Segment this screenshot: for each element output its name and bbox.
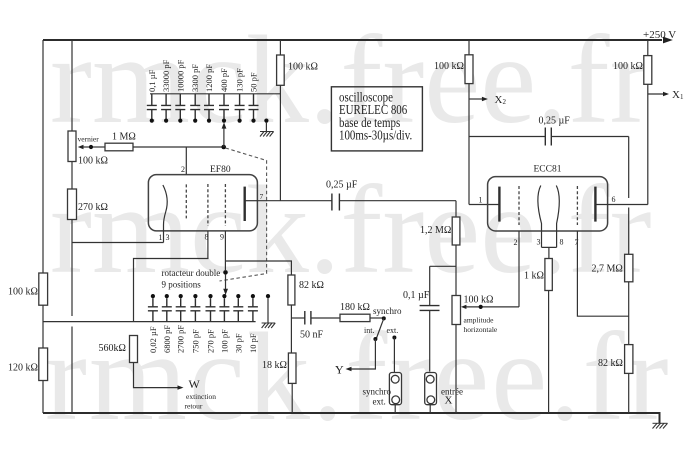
- tube ECC81: [479, 165, 616, 259]
- svg-text:9: 9: [220, 233, 224, 242]
- svg-text:100 kΩ: 100 kΩ: [8, 287, 38, 298]
- svg-text:2700 pF: 2700 pF: [176, 325, 186, 353]
- svg-text:400 pF: 400 pF: [219, 68, 229, 92]
- svg-text:rotacteur double: rotacteur double: [162, 268, 221, 278]
- node selector (bottom rotary wiper): [223, 270, 228, 275]
- capacitor 750pF: [190, 294, 200, 353]
- capacitor 30pF: [233, 294, 243, 353]
- svg-text:1 MΩ: 1 MΩ: [112, 132, 136, 143]
- wire EF80 anode line with coupling cap: [257, 200, 456, 202]
- svg-text:6800 pF: 6800 pF: [162, 325, 172, 353]
- svg-text:rmck.free.fr: rmck.free.fr: [45, 308, 671, 447]
- resistor 1k: [545, 259, 552, 291]
- grid g2 (EF80 pin8): [207, 184, 209, 226]
- capacitor 0,1uF branch: [430, 266, 456, 305]
- tube EF80: [148, 165, 263, 243]
- resistor 100k (X2): [465, 55, 473, 84]
- wire 100k bottom to EF80 anode line: [279, 85, 281, 200]
- svg-text:3: 3: [166, 233, 170, 242]
- svg-text:1,2 MΩ: 1,2 MΩ: [420, 225, 451, 236]
- svg-text:100 kΩ: 100 kΩ: [613, 61, 643, 72]
- svg-text:1 kΩ: 1 kΩ: [524, 271, 544, 282]
- svg-text:100 kΩ: 100 kΩ: [78, 156, 108, 167]
- resistor 2,7M: [625, 254, 633, 281]
- ground (chassis, bottom right): [653, 423, 668, 428]
- svg-text:EF80: EF80: [210, 165, 231, 175]
- svg-text:100 kΩ: 100 kΩ: [288, 62, 318, 73]
- svg-text:ext.: ext.: [373, 397, 386, 407]
- svg-text:1: 1: [479, 196, 483, 205]
- svg-text:100 kΩ: 100 kΩ: [434, 61, 464, 72]
- capacitor 33000pF: [161, 59, 171, 122]
- ground bus: [43, 413, 660, 423]
- svg-text:50 nF: 50 nF: [300, 330, 324, 341]
- svg-text:1: 1: [680, 93, 684, 101]
- svg-text:W: W: [189, 377, 201, 391]
- capacitor 50pF: [249, 72, 259, 123]
- grid right (ECC81 pin7): [576, 186, 578, 225]
- potentiometer 100k vernier: [68, 131, 76, 162]
- svg-text:0,25 µF: 0,25 µF: [539, 116, 571, 127]
- jack entree X: [425, 373, 463, 407]
- capacitor 400pF: [219, 68, 229, 123]
- svg-text:vernier: vernier: [78, 135, 100, 144]
- svg-text:2,7 MΩ: 2,7 MΩ: [592, 264, 623, 275]
- svg-text:560kΩ: 560kΩ: [99, 343, 126, 354]
- resistor 180k: [340, 314, 370, 321]
- potentiometer 100k amplitude horizontale: [452, 296, 461, 325]
- svg-text:180 kΩ: 180 kΩ: [340, 302, 370, 313]
- svg-text:0,25 µF: 0,25 µF: [326, 180, 358, 191]
- svg-text:X: X: [672, 89, 680, 101]
- capacitor 10000pF: [175, 59, 185, 122]
- svg-text:0,1 µF: 0,1 µF: [403, 290, 430, 301]
- anode plate left (ECC81): [498, 187, 500, 222]
- node 9th position (bottom bank): [266, 294, 270, 298]
- svg-text:1: 1: [159, 233, 163, 242]
- resistor 1,2M: [455, 201, 457, 217]
- svg-text:3300 pF: 3300 pF: [190, 64, 200, 92]
- svg-text:ext.: ext.: [387, 326, 399, 335]
- svg-text:100 pF: 100 pF: [219, 329, 229, 353]
- wire X2 column: [469, 40, 499, 205]
- capacitor 6800pF: [162, 294, 172, 353]
- svg-text:3: 3: [537, 238, 541, 247]
- capacitor 0,25uF (left): [332, 194, 340, 211]
- svg-text:X: X: [445, 395, 453, 407]
- capacitor 0,25uF (right): [545, 128, 551, 146]
- wire pin6 line: [597, 204, 648, 206]
- wire pin2 stub: [185, 147, 187, 175]
- svg-text:130 pF: 130 pF: [235, 68, 245, 92]
- svg-text:synchro: synchro: [373, 306, 402, 316]
- resistor 100k (top left): [277, 55, 285, 85]
- grid g3 (EF80 pin9): [224, 184, 226, 226]
- grid left (ECC81 pin2): [518, 186, 520, 225]
- resistor 270k: [68, 189, 77, 220]
- capacitor 2700pF: [176, 294, 186, 353]
- svg-text:270 pF: 270 pF: [206, 329, 216, 353]
- capacitor 50nF: [291, 317, 304, 319]
- svg-text:Y: Y: [335, 363, 344, 377]
- resistor 120k: [39, 348, 48, 381]
- resistor 100k (left rail): [39, 273, 48, 305]
- arrow X2: [469, 98, 483, 100]
- cathode (EF80): [163, 185, 167, 243]
- svg-text:82 kΩ: 82 kΩ: [299, 280, 324, 291]
- wire int to Y: [349, 339, 375, 369]
- svg-text:100ms-30µs/div.: 100ms-30µs/div.: [339, 127, 412, 143]
- wire pin2 to pot wiper: [518, 231, 520, 307]
- ground (top bank): [260, 132, 274, 137]
- svg-text:750 pF: 750 pF: [190, 329, 200, 353]
- cathode (ECC81): [538, 186, 542, 248]
- info box oscilloscope EURELEC 806: [331, 87, 422, 151]
- anode plate right (ECC81): [594, 187, 596, 222]
- svg-text:1200 pF: 1200 pF: [204, 64, 214, 92]
- jack synchro ext: [363, 373, 402, 407]
- svg-text:horizontale: horizontale: [464, 325, 498, 334]
- svg-text:18 kΩ: 18 kΩ: [262, 360, 287, 371]
- capacitor 130pF: [235, 68, 245, 123]
- capacitor 0,02uF (bank bottom 1): [148, 294, 158, 353]
- svg-text:10 pF: 10 pF: [248, 333, 258, 353]
- grid g1 (EF80 pin2): [185, 184, 187, 218]
- capacitor bank bottom: bus: [43, 321, 256, 323]
- svg-text:30 pF: 30 pF: [233, 333, 243, 353]
- +250V supply rail: [43, 29, 676, 43]
- svg-text:0,02 µF: 0,02 µF: [148, 326, 158, 353]
- svg-text:2: 2: [514, 238, 518, 247]
- resistor 1M: [105, 143, 133, 151]
- wire X1 column: [647, 40, 649, 205]
- resistor 82k (middle): [288, 275, 295, 305]
- ground (bottom bank): [262, 323, 276, 328]
- arrow X1: [648, 93, 664, 95]
- wire 82k to 18k: [290, 305, 292, 353]
- svg-text:10000 pF: 10000 pF: [175, 59, 185, 92]
- capacitor 3300pF: [190, 64, 200, 123]
- wire 560k to W arrow (extinction retour): [134, 363, 179, 388]
- resistor 100k (X1): [644, 56, 652, 85]
- svg-text:33000 pF: 33000 pF: [161, 59, 171, 92]
- svg-text:7: 7: [260, 192, 264, 201]
- resistor 560k: [130, 336, 138, 363]
- wire 0,25uF coupling (right): [469, 137, 629, 255]
- pin 7 lead: [246, 200, 258, 202]
- svg-text:120 kΩ: 120 kΩ: [8, 363, 38, 374]
- svg-text:100 kΩ: 100 kΩ: [464, 295, 494, 306]
- svg-text:2: 2: [503, 98, 507, 106]
- svg-text:ECC81: ECC81: [534, 165, 562, 175]
- capacitor bank top: bus: [150, 93, 280, 95]
- wire ext down to jack: [393, 338, 395, 373]
- wire pin7 to divider: [577, 231, 628, 316]
- mechanical link (dashed): [220, 148, 267, 281]
- svg-text:X: X: [495, 94, 503, 106]
- svg-text:50 pF: 50 pF: [249, 72, 259, 92]
- svg-text:retour: retour: [185, 402, 203, 411]
- wire pin9 down to selector: [224, 231, 226, 270]
- svg-text:extinction: extinction: [186, 392, 216, 401]
- capacitor 1200pF: [204, 64, 214, 123]
- svg-text:amplitude: amplitude: [464, 316, 495, 325]
- wire vernier column: [71, 40, 73, 413]
- svg-text:+250 V: +250 V: [643, 29, 676, 41]
- svg-text:270 kΩ: 270 kΩ: [78, 202, 108, 213]
- resistor 18k: [288, 353, 296, 383]
- wire pin1/3 to 270k column: [72, 242, 164, 244]
- svg-text:6: 6: [612, 195, 616, 204]
- wire left rail: [42, 40, 44, 413]
- wire 1M to selector: [133, 146, 224, 148]
- node 9th position (top bank): [264, 119, 268, 123]
- switch synchro int/ext: [364, 306, 402, 341]
- wire pin9 branch to 82k: [225, 261, 291, 275]
- svg-text:2: 2: [181, 165, 185, 174]
- resistor 82k (right): [625, 345, 633, 374]
- capacitor 10pF: [248, 294, 258, 353]
- svg-text:0,1 µF: 0,1 µF: [147, 69, 157, 92]
- capacitor 270pF: [206, 294, 216, 353]
- svg-text:9 positions: 9 positions: [162, 280, 202, 290]
- capacitor 0,1uF (C bank top 1): [147, 69, 157, 122]
- capacitor 100pF: [219, 294, 229, 353]
- svg-text:synchro: synchro: [363, 387, 392, 397]
- svg-text:8: 8: [560, 238, 564, 247]
- wire 100k top lead: [279, 40, 281, 55]
- node selector (top rotary wiper): [221, 145, 226, 150]
- wire pin8 to lower bank bus: [134, 231, 208, 322]
- anode plate (EF80): [243, 187, 245, 221]
- svg-text:82 kΩ: 82 kΩ: [598, 358, 623, 369]
- svg-text:int.: int.: [364, 326, 374, 335]
